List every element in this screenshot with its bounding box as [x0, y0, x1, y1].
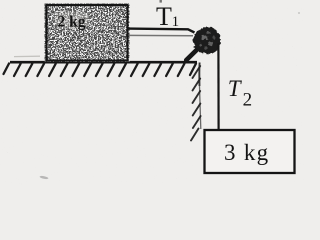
- table edge hatching: [191, 66, 201, 141]
- svg-text:2 kg: 2 kg: [58, 14, 86, 31]
- paper grain noise: [0, 0, 304, 185]
- string T1 lower ghost line: [128, 34, 193, 36]
- block M1 2 kg (on table): [47, 5, 128, 61]
- string T1 upper line (block to pulley): [128, 29, 195, 33]
- string T2 (pulley to hanging block): [217, 43, 219, 130]
- svg-text:2: 2: [243, 90, 253, 111]
- block M2 3 kg (hanging): [205, 130, 295, 173]
- pulley bracket (axle pin to table corner): [186, 49, 198, 60]
- pulley (scribbled disc): [193, 27, 220, 54]
- svg-text:T: T: [156, 2, 172, 31]
- table surface line: [10, 61, 197, 64]
- stray dot top edge: [160, 0, 162, 3]
- table surface hatching: [4, 64, 197, 77]
- svg-text:1: 1: [172, 14, 180, 30]
- faint pencil streak above ground at left: [14, 55, 40, 57]
- svg-text:T: T: [228, 76, 243, 101]
- pulley bracket taper tip: [186, 56, 192, 61]
- paper background: [0, 0, 304, 185]
- light halo behind 2 kg label: [55, 12, 89, 28]
- stray pencil smudge bottom-left: [39, 175, 48, 179]
- svg-text:3 kg: 3 kg: [224, 140, 269, 165]
- table vertical edge line (lower, fainter): [200, 86, 201, 129]
- stray dot right: [298, 12, 300, 14]
- table vertical edge line (upper, darker): [198, 63, 200, 87]
